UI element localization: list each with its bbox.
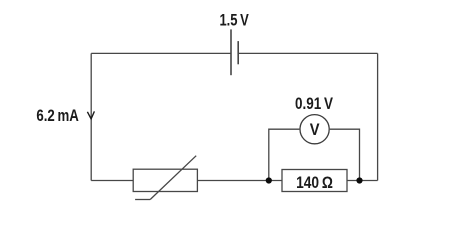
wire bottom: resistor to right corner bbox=[347, 180, 378, 182]
svg-text:0.91 V: 0.91 V bbox=[295, 95, 333, 113]
voltmeter left branch wire bbox=[269, 129, 300, 180]
wire top-left segment bbox=[91, 52, 231, 54]
svg-text:V: V bbox=[310, 120, 320, 139]
wire right side bbox=[377, 53, 379, 180]
voltmeter right branch wire bbox=[330, 129, 360, 180]
wire bottom: left corner to thermistor bbox=[91, 180, 133, 182]
battery B1 short plate bbox=[237, 41, 239, 64]
svg-text:1.5 V: 1.5 V bbox=[219, 12, 248, 30]
wire bottom: thermistor to resistor bbox=[197, 180, 282, 182]
svg-text:140 Ω: 140 Ω bbox=[296, 174, 333, 192]
current arrow bbox=[87, 111, 94, 119]
thermistor RT1 body bbox=[133, 169, 197, 191]
battery B1 long plate bbox=[230, 29, 232, 75]
thermistor diagonal stroke bbox=[150, 156, 196, 200]
wire top-right segment bbox=[238, 52, 377, 54]
thermistor foot stroke bbox=[135, 199, 150, 201]
svg-text:6.2 mA: 6.2 mA bbox=[36, 107, 78, 125]
wire left side bbox=[90, 53, 92, 180]
resistor R1 body bbox=[282, 170, 347, 192]
voltmeter M1 circle bbox=[300, 115, 329, 144]
junction node left bbox=[266, 177, 272, 183]
junction node right bbox=[356, 177, 362, 183]
